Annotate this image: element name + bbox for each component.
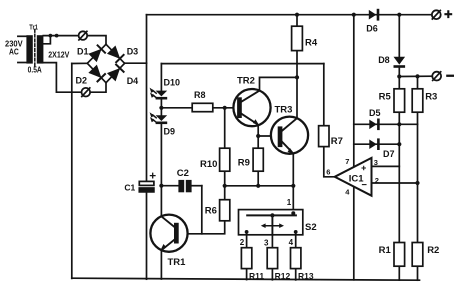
node junction D5-R5 column [397, 122, 401, 126]
diode D1 (bridge) [90, 45, 105, 60]
node junction D8 top [397, 13, 401, 17]
wire C2 right drop to base row [201, 186, 203, 234]
svg-text:D1: D1 [77, 47, 89, 57]
wire ground vertical left [71, 64, 73, 279]
svg-text:R10: R10 [200, 159, 217, 170]
svg-text:C1: C1 [124, 182, 135, 192]
svg-text:2: 2 [240, 238, 245, 247]
wire secondary winding tap hook [43, 36, 50, 44]
wire IC1 pin4 down [353, 186, 355, 279]
wire C2 right lead [192, 185, 202, 187]
resistor R2 [412, 243, 423, 267]
svg-text:D7: D7 [383, 149, 395, 159]
svg-text:D6: D6 [366, 24, 378, 34]
wire R8 row [161, 107, 192, 109]
wire mid rail x354 top to IC1 pin7 [353, 15, 355, 167]
wire bridge arm bottom-right [106, 63, 125, 82]
node secondary top lead junction dots [49, 34, 59, 38]
wire bridge left corner to ground vertical [72, 62, 88, 64]
wire R5 column [398, 77, 400, 89]
node junction TR2 collector / R4 [295, 75, 299, 79]
switch S2 [239, 210, 303, 235]
capacitor C1 [139, 173, 155, 192]
svg-text:R5: R5 [379, 92, 392, 103]
svg-text:0.5A: 0.5A [28, 65, 42, 75]
resistor R11 [241, 248, 251, 269]
wire bottom rail [72, 278, 420, 280]
wire bridge right corner to left rail [125, 62, 147, 64]
svg-text:R1: R1 [379, 245, 392, 256]
svg-text:TR1: TR1 [168, 257, 187, 268]
node AC connector top (circle with slash) [79, 31, 88, 40]
node junction R9 bottom [256, 184, 260, 188]
wire TR2 collector up [260, 77, 298, 90]
svg-text:TR3: TR3 [275, 104, 293, 115]
transformer Tr1 primary leads [18, 35, 27, 37]
resistor R9 [253, 148, 263, 171]
wire R10 to R6 [224, 171, 226, 200]
svg-text:2X12V: 2X12V [48, 50, 69, 60]
diode D4 (bridge) [109, 65, 124, 80]
LED D10 [150, 88, 168, 100]
LED D9 [150, 112, 168, 124]
label plus sign drawn [444, 10, 452, 18]
diode D6 [369, 9, 380, 21]
wire TR3 base row [258, 135, 278, 137]
wire bridge arm top-left [87, 44, 106, 63]
svg-text:R7: R7 [331, 136, 343, 147]
diode D3 (bridge) [109, 47, 124, 62]
wire S2 pin stubs [247, 232, 296, 280]
diode D5 [369, 119, 379, 131]
svg-text:D5: D5 [369, 108, 381, 118]
resistor R10 [220, 148, 230, 171]
node junction TR2 emitter / TR3 base [256, 134, 260, 138]
svg-text:D10: D10 [164, 78, 181, 88]
wire minus row [399, 75, 432, 77]
svg-text:S2: S2 [305, 222, 317, 233]
wire TR3 emitter down to S2 pin1 [292, 153, 294, 214]
resistor R8 [192, 103, 213, 111]
diode D7 [369, 138, 379, 150]
resistor R5 [394, 89, 405, 112]
resistor R6 [220, 200, 230, 221]
node plus terminal [432, 10, 441, 19]
diode D8 [394, 57, 406, 68]
wire IC1 pin6 to R7 [324, 147, 335, 177]
svg-text:AC: AC [9, 47, 19, 57]
wire R3 column [417, 76, 419, 88]
svg-text:R11: R11 [249, 271, 264, 281]
svg-text:4: 4 [289, 238, 294, 247]
node junction R8-R10 [223, 106, 227, 110]
node junction R5 top [397, 74, 401, 78]
svg-text:R2: R2 [427, 245, 439, 256]
wire R6 bottom to TR1 base row [179, 221, 225, 234]
svg-text:3: 3 [264, 239, 269, 248]
node junction pin2-R2 column [415, 181, 419, 185]
wire C2 left lead [161, 185, 178, 187]
transistor TR1 (mirrored) [150, 215, 187, 279]
node junction TR3 emitter / mid wire [291, 184, 295, 188]
svg-text:TR2: TR2 [237, 75, 255, 86]
svg-text:Tr1: Tr1 [29, 22, 38, 31]
resistor R3 [412, 89, 423, 112]
wire top rail [147, 14, 432, 16]
svg-text:D2: D2 [76, 75, 88, 85]
wire R9 bottom lead [257, 171, 259, 186]
svg-text:D9: D9 [164, 126, 176, 136]
wire D7 row [354, 143, 400, 145]
wire left rail lower [146, 192, 148, 279]
wire R7 top vertical [323, 64, 325, 126]
node minus terminal [432, 72, 441, 81]
wire TR2 emitter to R9 [257, 125, 259, 148]
svg-text:R12: R12 [275, 271, 291, 281]
svg-text:C2: C2 [177, 168, 189, 179]
op-amp IC1 [335, 158, 372, 196]
wire IC1 pin3 row [372, 165, 400, 167]
svg-text:IC1: IC1 [349, 173, 365, 184]
label minus sign drawn [446, 75, 454, 77]
wire R4 branch vertical / TR3 collector [296, 15, 298, 27]
resistor R1 [394, 243, 405, 267]
wire bridge arm top-right [106, 44, 125, 63]
wire D9 down to C2 junction and TR1 collector [160, 124, 162, 216]
wire D8 vertical from plus rail [398, 15, 400, 57]
node junction C2 tap [159, 184, 163, 188]
capacitor C2 [178, 180, 191, 192]
svg-text:R6: R6 [205, 205, 217, 216]
svg-text:3: 3 [374, 158, 378, 167]
node junction D9-R8 [159, 106, 163, 110]
transistor TR3 [271, 117, 308, 155]
resistor R7 [319, 126, 329, 147]
node junction R3 top [415, 74, 419, 78]
wire mid horizontal y186 to TR3 emitter [225, 185, 294, 187]
wire secondary bottom lead [43, 63, 81, 93]
wire D10 branch horizontal to R7 [161, 63, 323, 65]
wire D5 row [354, 123, 418, 125]
transformer Tr1 [26, 30, 43, 68]
node junction R10-R6-wire [223, 184, 227, 188]
wire top connector to bridge [88, 36, 107, 45]
svg-text:R9: R9 [238, 158, 250, 169]
svg-text:R8: R8 [194, 90, 206, 100]
svg-text:R3: R3 [425, 92, 437, 103]
svg-text:7: 7 [345, 157, 349, 166]
svg-text:D4: D4 [127, 76, 139, 86]
node junction D7 end [397, 142, 401, 146]
node junction R4 top [295, 13, 299, 17]
wire D10-D9 vertical [160, 64, 162, 91]
transistor TR2 [233, 89, 270, 126]
diode D2 (bridge) [90, 66, 105, 81]
svg-text:R13: R13 [298, 271, 314, 281]
svg-text:D8: D8 [378, 55, 390, 65]
svg-text:D3: D3 [127, 47, 139, 57]
resistor R4 [292, 26, 303, 50]
svg-text:6: 6 [326, 167, 330, 176]
svg-text:2: 2 [375, 176, 379, 185]
wire bridge arm bottom-left [87, 63, 106, 82]
node junction mid rail top [352, 13, 356, 17]
svg-text:R4: R4 [305, 37, 318, 48]
wire IC1 pin2 row [372, 182, 418, 184]
wire left rail upper [146, 15, 148, 182]
svg-text:1: 1 [287, 198, 292, 207]
wire secondary top lead [43, 35, 78, 37]
resistor R12 [267, 248, 277, 269]
resistor R13 [291, 248, 301, 269]
wire R10 vertical top [224, 108, 226, 148]
node AC connector bottom (circle with slash) [82, 88, 91, 97]
wire bottom connector to bridge [90, 83, 106, 93]
